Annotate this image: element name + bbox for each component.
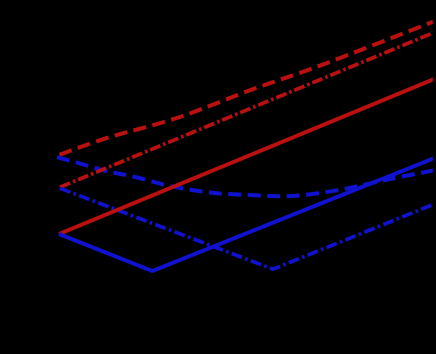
blue dashed curve (lower branch) (57, 157, 434, 196)
blue solid V curve (59, 158, 434, 271)
red solid line (59, 79, 435, 234)
blue dash-dot V curve (60, 188, 434, 269)
red dash-dot line (60, 33, 434, 188)
red dashed curve (upper branch) (60, 22, 434, 155)
